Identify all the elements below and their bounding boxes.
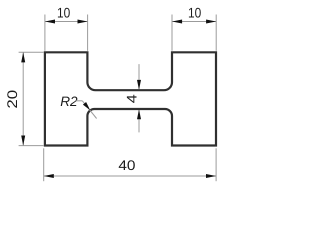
arrow up (tip at waist bottom): [137, 109, 141, 119]
svg-text:10: 10: [57, 4, 70, 20]
arrow right: [206, 20, 216, 24]
arrow right: [206, 174, 216, 178]
extension line left: [43, 148, 45, 181]
svg-text:R2: R2: [60, 94, 78, 109]
svg-text:20: 20: [4, 90, 20, 109]
svg-text:4: 4: [123, 94, 139, 103]
svg-text:40: 40: [118, 157, 135, 173]
extension line left: [171, 15, 173, 51]
dimension line upper: [138, 64, 140, 89]
arrow bottom: [21, 136, 25, 146]
arrow left: [45, 20, 55, 24]
arrow top: [21, 52, 25, 62]
extension line bottom: [19, 145, 44, 147]
arrow left: [44, 174, 54, 178]
extension line top: [19, 51, 44, 53]
leader line horizontal segment: [76, 100, 83, 102]
arrow left: [172, 20, 182, 24]
leader arrowhead (tip on fillet arc): [83, 102, 90, 110]
extension line left: [44, 15, 46, 51]
part outline (H-shaped plate): [45, 52, 216, 145]
dimension line: [45, 21, 88, 23]
extension line right: [87, 15, 89, 51]
svg-text:10: 10: [188, 4, 201, 20]
arrow down (tip at waist top): [137, 80, 141, 90]
arrow right: [78, 20, 88, 24]
extension line right: [215, 15, 217, 51]
dimension line: [44, 175, 216, 177]
dimension line lower: [138, 110, 140, 132]
dimension line: [172, 21, 216, 23]
extension line right: [215, 148, 217, 181]
dimension line: [22, 52, 24, 145]
leader line diagonal segment: [82, 101, 96, 119]
